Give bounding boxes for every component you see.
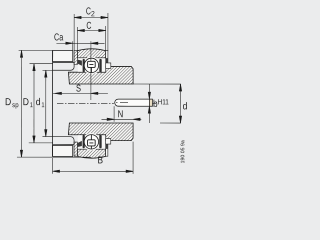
ball bite bottom [83,133,101,151]
hex socket top [88,61,96,72]
svg-text:1: 1 [41,102,44,109]
svg-text:d: d [36,97,41,108]
extension end rounded edge top [53,63,75,70]
seal lip right top [106,58,108,63]
svg-text:C: C [86,21,91,32]
seal strip right top [106,50,108,63]
locking collar bottom [53,145,73,156]
dimension Ca [56,41,104,50]
cage strip left top [83,59,85,73]
cage strip right bottom [99,135,101,149]
inner ring bottom section [68,123,133,141]
svg-text:d: d [183,101,188,112]
dimension B [53,142,134,174]
seal lip right bottom [106,144,108,149]
dimension b [148,84,150,123]
ball bottom [84,135,98,149]
dimension C2 [74,13,108,51]
svg-text:sp: sp [12,102,18,109]
flinger foot right bottom [106,139,111,144]
extension OD line top (d1 edge) [53,61,74,63]
dimension D1 [29,64,53,143]
svg-text:S: S [76,83,81,94]
ball top [84,58,98,72]
b highlight block [149,99,152,106]
svg-text:2: 2 [91,9,95,18]
hex socket bottom [88,135,96,149]
seal strip right bottom [106,144,108,157]
seal strip left bottom [74,142,77,156]
extension end rounded edge bottom [53,137,75,144]
dimension C [77,26,105,51]
svg-text:Ca: Ca [54,32,64,43]
locking collar top [53,50,73,61]
svg-text:D: D [23,97,29,108]
ball bite top [83,57,101,75]
dimension N [101,106,141,122]
dimension S [53,92,108,94]
seal lip left top [78,60,82,66]
svg-text:B: B [98,155,104,166]
cage strip left bottom [83,135,85,149]
ball pocket bottom white [78,135,106,149]
extension OD line bottom [53,144,75,146]
flinger foot right top [106,63,111,68]
centerline [57,102,114,104]
cage strip right top [99,59,101,73]
seal lip left bottom [78,141,82,147]
svg-text:1: 1 [30,102,33,109]
capsule slot b [115,99,150,106]
svg-text:H11: H11 [158,97,169,106]
outer ring top section [77,49,105,58]
inner ring left face [52,50,54,156]
dimension d1 [42,70,52,136]
dimension d [133,84,182,123]
svg-text:190 05 9a: 190 05 9a [180,140,186,163]
capsule dash detail [116,102,118,104]
seal strip hatched left top [74,50,77,64]
dimension Dsp [17,50,91,157]
screw center extension line [90,41,92,100]
svg-text:D: D [5,97,11,108]
ball pocket top white [78,58,106,72]
inner ring top section [68,66,133,84]
outer ring bottom section [77,149,105,158]
svg-text:N: N [118,109,124,120]
